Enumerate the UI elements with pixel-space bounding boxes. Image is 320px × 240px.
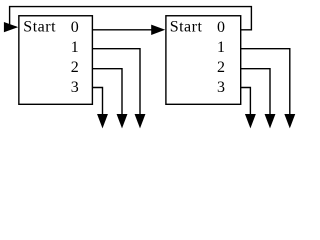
wire U1 out2 down xyxy=(92,69,122,120)
wire U2 out1 down xyxy=(241,49,290,120)
arrowhead U2 out3 xyxy=(245,114,256,128)
svg-text:Start: Start xyxy=(23,19,56,36)
wire U1 out0 to U2 Start xyxy=(92,29,153,31)
svg-text:2: 2 xyxy=(71,59,79,76)
arrowhead into U1 Start xyxy=(4,22,18,32)
svg-text:2: 2 xyxy=(217,59,225,76)
svg-text:1: 1 xyxy=(71,39,79,56)
svg-text:Start: Start xyxy=(170,19,203,36)
box U1 (left distributor) xyxy=(19,16,93,105)
wire U2 out0 feedback loop to U1 Start xyxy=(10,7,252,30)
wire U2 out2 down xyxy=(241,69,270,120)
wire U1 out3 down xyxy=(92,88,102,121)
arrowhead U1 out2 xyxy=(117,114,128,128)
svg-text:0: 0 xyxy=(71,19,79,36)
arrowhead U1 out3 xyxy=(97,114,108,128)
svg-text:1: 1 xyxy=(217,39,225,56)
svg-text:0: 0 xyxy=(217,19,225,36)
wire U1 out1 down xyxy=(92,49,140,120)
arrowhead U2 out2 xyxy=(265,114,276,128)
wire U2 out3 down xyxy=(241,88,251,121)
box U2 (right distributor) xyxy=(166,16,241,105)
arrowhead U2 out1 xyxy=(284,114,295,128)
arrowhead U1 out1 xyxy=(135,114,146,128)
arrowhead into U2 Start xyxy=(151,25,165,35)
svg-text:3: 3 xyxy=(71,79,79,96)
svg-text:3: 3 xyxy=(217,79,225,96)
